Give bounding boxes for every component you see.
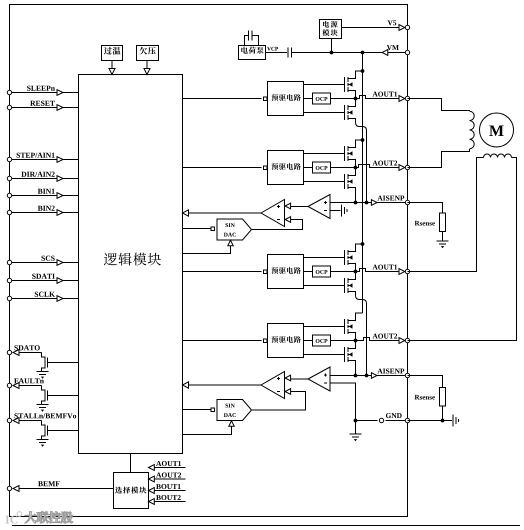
pin BIN1 (7, 193, 11, 197)
wire pin SLEEPn to logic (12, 92, 79, 94)
pin label AOUT2 row4 (372, 334, 377, 339)
wire pre-drive to OCP 2 (304, 167, 313, 169)
capacitor C-flying loop over charge pump (245, 31, 259, 46)
transistor Q1 high-side (344, 77, 346, 92)
wire output AOUT2 to pin (331, 165, 399, 168)
wire logic to DAC A (183, 228, 212, 230)
wire low-side gate 2 (304, 181, 345, 183)
arrow up into DAC A (228, 240, 233, 245)
charge pump block 电荷泵 (239, 46, 266, 60)
chip package boundary (10, 5, 408, 517)
mux block 选择模块 (114, 473, 149, 509)
OCP block 2 (313, 162, 331, 173)
transistor Q7 high-side (344, 319, 346, 334)
wire source Q2 to sense line (348, 119, 367, 203)
wire BEMF to mux (20, 488, 114, 490)
arrow comparator A + input (285, 203, 291, 209)
arrow BISENP (371, 373, 377, 379)
node junction VM rail tap (361, 51, 365, 55)
pin label AOUT1 row3 (372, 265, 377, 270)
wire VM rail vertical (362, 53, 364, 314)
pin label AOUT1 row1 (372, 92, 377, 97)
wire gate STALLn/BEMFVo from logic (48, 430, 79, 432)
pin label GND (386, 413, 391, 418)
ground at FAULTn (37, 404, 49, 406)
wire logic to DAC B reference (183, 426, 232, 434)
arrow up into DAC B (229, 421, 234, 426)
wire drain Q2 to output (348, 99, 356, 107)
wire comparator B - input to DAC B (252, 392, 306, 411)
wire Rsense B to GND line (442, 406, 444, 421)
node sense junction 2 (354, 201, 358, 205)
pin AOUT1 row3 (405, 269, 409, 273)
arrow VM input (382, 50, 388, 56)
input buffer arrow STEP/AIN1 (57, 157, 63, 163)
wire pin SDATO to transistor (20, 352, 42, 354)
input glyph at DAC A (211, 227, 215, 231)
pin SDATI (7, 278, 11, 282)
wire pin SCLK to logic (12, 298, 79, 300)
pin AISENP B (405, 373, 409, 377)
wire low-side gate 4 (304, 354, 345, 356)
wire logic to mux (130, 454, 132, 473)
wire output AOUT1 to pin (331, 96, 399, 99)
input buffer arrow SCS (57, 260, 63, 266)
wire logic to DAC A reference (183, 246, 231, 254)
wire drain Q3 to VM rail (348, 140, 363, 148)
input buffer arrow SLEEPn (57, 90, 63, 96)
DAC block SIN DAC A (217, 219, 252, 240)
transistor Q4 low-side (344, 174, 346, 189)
wire mux tap BOUT2 (155, 501, 186, 503)
wire output AOUT2 to pin (331, 338, 399, 341)
net label BOUT2 at mux (156, 495, 161, 500)
wire amp A output to comparator (291, 206, 309, 208)
DAC block SIN DAC B (217, 400, 252, 421)
input buffer arrow BIN2 (57, 210, 63, 216)
output arrow STALLn/BEMFVo (13, 418, 19, 424)
input glyph at pre-drive 2 (264, 166, 268, 170)
op-amp comparator A (261, 200, 285, 227)
pin label BEMF (38, 481, 43, 486)
node output junction AOUT1 (354, 97, 358, 101)
wire pre-drive to OCP 4 (304, 340, 313, 342)
capacitor C-VCP series (287, 48, 289, 58)
arrow into logic from 过温 (109, 69, 115, 75)
pin label SDATO (14, 345, 17, 350)
pin GND (405, 418, 409, 422)
arrow mux input AOUT2 (149, 476, 155, 482)
node VM rail junction 3 (361, 242, 365, 246)
OCP block 3 (313, 266, 331, 277)
arrow comparator B - input (285, 389, 291, 395)
output arrow BEMF (13, 486, 19, 492)
wire comparator B output to logic (189, 384, 262, 386)
wire high-side gate 1 (304, 84, 345, 86)
transistor Q2 low-side (344, 105, 346, 120)
under-voltage block 欠压 (137, 46, 159, 61)
wire pin FAULTn to transistor (20, 385, 42, 387)
wire AISENP to Rsense A (408, 203, 443, 214)
wire GND external (408, 420, 453, 422)
wire AISENP to pin (377, 202, 408, 204)
inductor winding B (484, 154, 512, 157)
pre-drive block 预驱电路 3 (268, 255, 304, 289)
pin STALLn/BEMFVo (7, 418, 11, 422)
pin label RESET (30, 101, 35, 106)
wire pin BIN2 to logic (12, 212, 79, 214)
node sense junction 3 (365, 374, 369, 378)
pin FAULTn (7, 383, 11, 387)
pin label AISENP row B (377, 369, 382, 374)
node VM rail junction 2 (361, 138, 365, 142)
wire high-side gate 2 (304, 153, 345, 155)
op-amp comparator B (261, 372, 285, 399)
net label VCP (267, 47, 271, 51)
input buffer arrow DIR/AIN2 (57, 176, 63, 182)
pin AOUT1 row1 (405, 96, 409, 100)
value label Rsense B (415, 395, 420, 400)
wire source Q3 to output (348, 160, 356, 168)
pin label AOUT2 row2 (372, 161, 377, 166)
wire source Q6 to sense line (348, 292, 367, 376)
op-amp sense amplifier B (308, 367, 330, 391)
wire low-side gate 1 (304, 112, 345, 114)
resistor Rsense A (440, 213, 446, 232)
pin BIN2 (7, 210, 11, 214)
pin STEP/AIN1 (7, 157, 11, 161)
arrow mux input BOUT1 (149, 488, 155, 494)
op-amp sense amplifier A (308, 195, 330, 219)
node sense junction 1 (365, 201, 369, 205)
wire pin DIR/AIN2 to logic (12, 178, 79, 180)
pre-drive block 预驱电路 4 (268, 324, 304, 358)
wire V5 output (342, 27, 408, 29)
pin DIR/AIN2 (7, 176, 11, 180)
wire BISENP to Rsense B (408, 376, 443, 388)
pin AOUT2 row4 (405, 338, 409, 342)
transistor Q8 low-side (344, 347, 346, 362)
wire BISENP to pin (377, 375, 408, 377)
wire AOUT1B to winding B (408, 158, 484, 272)
input glyph at pre-drive 1 (264, 97, 268, 101)
input buffer arrow RESET (57, 105, 63, 111)
wire logic to pre-drive 1 (183, 98, 262, 100)
wire drain Q8 to output (348, 341, 356, 349)
node output junction AOUT2 (354, 339, 358, 343)
wire output AOUT1 to pin (331, 269, 399, 272)
over-temperature block 过温 (102, 46, 123, 61)
OCP block 1 (313, 93, 331, 104)
pin label BIN1 (38, 189, 43, 194)
wire logic to pre-drive 3 (183, 271, 262, 273)
ground symbol external right (452, 415, 454, 427)
wire winding B to AOUT2B (408, 158, 517, 341)
pin AISENP A (405, 200, 409, 204)
ground at STALLn/BEMFVo (37, 439, 49, 441)
wire amp B output to comparator (291, 378, 309, 380)
pin label SCLK (35, 292, 38, 297)
wire source Q5 to output (348, 264, 356, 272)
value label Rsense A (415, 221, 420, 226)
wire sense line BISENP (330, 375, 371, 377)
input glyph at DAC B (211, 408, 215, 412)
wire mux tap BOUT1 (155, 490, 186, 492)
wire amp B - input to GND net (330, 383, 356, 421)
wire high-side gate 4 (304, 326, 345, 328)
wire source Q8 to sense line (348, 361, 356, 376)
wire logic to DAC B (183, 409, 212, 411)
wire logic to pre-drive 4 (183, 340, 262, 342)
input glyph at pre-drive 3 (264, 270, 268, 274)
wire source Q4 to sense line (348, 188, 356, 203)
wire pre-drive to OCP 1 (304, 98, 313, 100)
wire pin STALLn/BEMFVo to transistor (20, 420, 42, 422)
wire drain Q7 to VM rail (348, 313, 363, 321)
arrow mux input AOUT1 (149, 465, 155, 471)
transistor Q-SDATO open-drain (42, 353, 48, 372)
transistor Q6 low-side (344, 278, 346, 293)
wire drain Q6 to output (348, 272, 356, 280)
node junction VCP/VM at power module (330, 51, 334, 55)
capacitor/ground at amp A - input (330, 210, 341, 212)
arrow comparator B + input (285, 375, 291, 381)
arrow AISENP (371, 200, 377, 206)
wire comparator A - input to DAC A (252, 220, 303, 230)
arrow mux input BOUT2 (149, 499, 155, 505)
pin label VM (387, 45, 392, 50)
pre-drive block 预驱电路 2 (268, 151, 304, 185)
transistor Q-FAULTn open-drain (42, 386, 48, 405)
wire Rsense A to ground (442, 232, 444, 242)
arrow into logic from 欠压 (144, 69, 150, 75)
pin label V5 (388, 20, 393, 25)
pin label SDATI (32, 274, 35, 279)
pin label SLEEPn (27, 86, 30, 91)
arrow output AOUT2 (399, 165, 405, 171)
wire drain Q1 to VM rail (348, 71, 363, 79)
wire pin RESET to logic (12, 107, 79, 109)
pin AOUT2 row2 (405, 165, 409, 169)
wire winding A to AOUT2 (408, 149, 470, 168)
node sense junction 4 (354, 374, 358, 378)
node output junction AOUT2 (354, 166, 358, 170)
wire sense line AISENP (330, 202, 371, 204)
pin label FAULTn (14, 378, 18, 383)
wire VCP from charge pump (266, 52, 288, 54)
ground symbol internal (355, 421, 357, 435)
pin RESET (7, 105, 11, 109)
wire mux tap AOUT1 (155, 467, 186, 469)
wire pin SDATI to logic (12, 280, 79, 282)
transistor Q-STALLn/BEMFVo open-drain (42, 421, 48, 440)
wire drain Q4 to output (348, 168, 356, 176)
OCP block 4 (313, 335, 331, 346)
wire gate SDATO from logic (48, 362, 79, 364)
transistor Q3 high-side (344, 146, 346, 161)
wire source Q1 to output (348, 91, 356, 99)
pin VM (405, 50, 409, 54)
output arrow FAULTn (13, 383, 19, 389)
input buffer arrow BIN1 (57, 193, 63, 199)
watermark logo (decorative) (5, 512, 72, 524)
wire VCP cap to VM line (292, 52, 408, 54)
pin BEMF (7, 486, 11, 490)
logic module 逻辑模块 U-logic (79, 75, 183, 454)
node Rsense B to GND (441, 419, 445, 423)
output arrow SDATO (13, 350, 19, 356)
pre-drive block 预驱电路 1 (268, 82, 304, 116)
pin label AISENP row A (377, 196, 382, 201)
wire low-side gate 3 (304, 285, 345, 287)
pin SCLK (7, 296, 11, 300)
node VM rail junction 1 (361, 69, 365, 73)
arrow output AOUT1 (399, 269, 405, 275)
net label BOUT1 at mux (156, 484, 161, 489)
wire power module to VM line (331, 39, 333, 53)
node GND junction (354, 419, 358, 423)
pin label DIR/AIN2 (21, 172, 26, 177)
net label AOUT1 at mux (156, 461, 161, 466)
motor M (480, 113, 514, 147)
wire mux tap AOUT2 (155, 478, 186, 480)
arrow output AOUT1 (399, 96, 405, 102)
inductor winding A (470, 111, 475, 149)
wire logic to pre-drive 2 (183, 167, 262, 169)
transistor Q5 high-side (344, 250, 346, 265)
wire pin SCS to logic (12, 262, 79, 264)
wire gate FAULTn from logic (48, 395, 79, 397)
ground at Rsense A (437, 240, 449, 242)
pin SCS (7, 260, 11, 264)
input buffer arrow SDATI (57, 278, 63, 284)
pin label STALLn/BEMFVo (14, 413, 17, 418)
wire pre-drive to OCP 3 (304, 271, 313, 273)
input glyph at pre-drive 4 (264, 339, 268, 343)
wire drain Q5 to VM rail (348, 244, 363, 252)
wire GND to pin (356, 420, 378, 422)
wire 欠压 to logic (146, 61, 148, 69)
pin label BIN2 (38, 206, 43, 211)
wire source Q7 to output (348, 333, 356, 341)
wire AOUT1 to winding A (408, 99, 470, 112)
arrow comparator A output into logic (183, 210, 189, 216)
pin label STEP/AIN1 (17, 153, 20, 158)
pin V5 (405, 25, 409, 29)
input buffer arrow SCLK (57, 296, 63, 302)
resistor Rsense B (440, 388, 446, 407)
pin SDATO (7, 350, 11, 354)
pin label SCS (41, 256, 44, 261)
arrow comparator B output into logic (183, 382, 189, 388)
wire pin BIN1 to logic (12, 195, 79, 197)
arrow comparator A - input (285, 217, 291, 223)
wire comparator A output to logic (189, 212, 262, 214)
ground at SDATO (37, 371, 49, 373)
wire high-side gate 3 (304, 257, 345, 259)
page border bottom (12, 525, 520, 527)
wire pin STEP/AIN1 to logic (12, 159, 79, 161)
power module block 电源模块 (320, 20, 342, 39)
wire 过温 to logic (111, 61, 113, 69)
arrow V5 output (399, 25, 405, 31)
arrow output AOUT2 (399, 338, 405, 344)
node output junction AOUT1 (354, 270, 358, 274)
net label AOUT2 at mux (156, 473, 161, 478)
pin SLEEPn (7, 90, 11, 94)
small circle on GND wire (379, 418, 383, 422)
